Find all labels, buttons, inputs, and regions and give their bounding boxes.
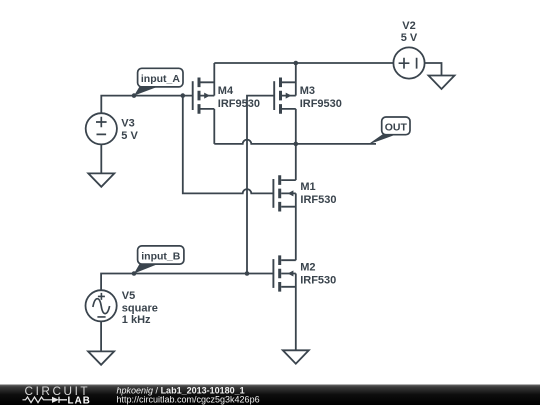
svg-text:M2: M2 xyxy=(300,261,315,273)
flag OUT xyxy=(368,117,410,145)
wire M2 source down to ground xyxy=(295,274,297,351)
svg-text:input_A: input_A xyxy=(141,73,180,85)
junction node on input_A at flag xyxy=(132,93,137,98)
svg-text:square: square xyxy=(122,302,158,314)
svg-text:LAB: LAB xyxy=(68,395,91,405)
svg-text:IRF530: IRF530 xyxy=(300,274,336,286)
label M3 designator xyxy=(300,85,342,110)
wire M3 top terminal xyxy=(295,63,297,96)
wire M1 drain up to OUT node xyxy=(295,144,297,180)
wire V3 bottom lead to ground xyxy=(100,144,102,173)
junction node OUT at M3/M1 xyxy=(294,142,299,147)
ground for M2 source xyxy=(283,350,309,363)
junction node input_A branch xyxy=(181,93,186,98)
label M4 designator xyxy=(218,85,260,110)
flag input_A xyxy=(134,68,183,95)
label M1 designator xyxy=(300,181,336,206)
svg-text:http://circuitlab.com/cgcz5g3k: http://circuitlab.com/cgcz5g3k426p6 xyxy=(117,395,260,405)
junction node input_B branch xyxy=(245,271,250,276)
svg-text:IRF530: IRF530 xyxy=(300,194,336,206)
svg-text:V2: V2 xyxy=(402,20,415,32)
wire input_A branch to M1 gate (hop over vertical) xyxy=(183,96,274,194)
voltage source V3 5V xyxy=(86,113,117,144)
wire node OUT: M4 drain rail to OUT flag (hop over vertical) xyxy=(214,140,376,144)
wire node input_B: V5 top to M2 gate xyxy=(101,274,273,291)
svg-text:V3: V3 xyxy=(121,118,134,130)
footer bar xyxy=(0,385,540,405)
svg-text:OUT: OUT xyxy=(385,121,408,133)
wire M1 source to M2 drain xyxy=(295,193,297,260)
logo CIRCUIT LAB xyxy=(23,384,91,405)
transistor M2 NMOS IRF530 xyxy=(273,255,295,291)
junction node VDD rail at M3 xyxy=(294,61,299,66)
ground for V5 xyxy=(88,351,114,364)
svg-text:M4: M4 xyxy=(218,85,234,97)
wire M4 bottom terminal xyxy=(213,109,215,144)
ground for V3 xyxy=(88,173,114,186)
wire node input_A: V3 top to M4 gate xyxy=(101,96,192,114)
junction node on input_B at flag xyxy=(132,271,137,276)
transistor M1 NMOS IRF530 xyxy=(273,175,295,211)
wire V5 bottom lead to ground xyxy=(100,321,102,351)
flag input_B xyxy=(134,246,184,274)
wire M4 top terminal xyxy=(213,63,215,96)
voltage source V5 square 1kHz xyxy=(86,290,117,321)
label V5 value xyxy=(122,290,158,326)
wire input_B branch up to M3 gate xyxy=(247,96,274,274)
wire M3 bottom terminal xyxy=(295,109,297,144)
transistor M3 PMOS IRF9530 xyxy=(274,78,296,114)
svg-text:5 V: 5 V xyxy=(401,32,418,44)
footer credit text xyxy=(117,386,260,405)
voltage source V2 5V xyxy=(393,47,424,78)
wire VDD rail from M4 drain to V2 xyxy=(214,62,393,64)
wire V2 negative lead to ground xyxy=(424,63,441,76)
svg-text:V5: V5 xyxy=(122,290,135,302)
svg-text:5 V: 5 V xyxy=(121,130,138,142)
svg-text:IRF9530: IRF9530 xyxy=(218,98,260,110)
label V2 value xyxy=(401,20,418,44)
svg-text:IRF9530: IRF9530 xyxy=(300,98,342,110)
label M2 designator xyxy=(300,261,336,286)
transistor M4 PMOS IRF9530 xyxy=(193,78,215,114)
label V3 value xyxy=(121,118,138,142)
svg-text:M3: M3 xyxy=(300,85,315,97)
ground for V2 xyxy=(429,76,455,90)
svg-text:1 kHz: 1 kHz xyxy=(122,314,151,326)
svg-text:M1: M1 xyxy=(300,181,315,193)
svg-text:input_B: input_B xyxy=(141,251,180,263)
